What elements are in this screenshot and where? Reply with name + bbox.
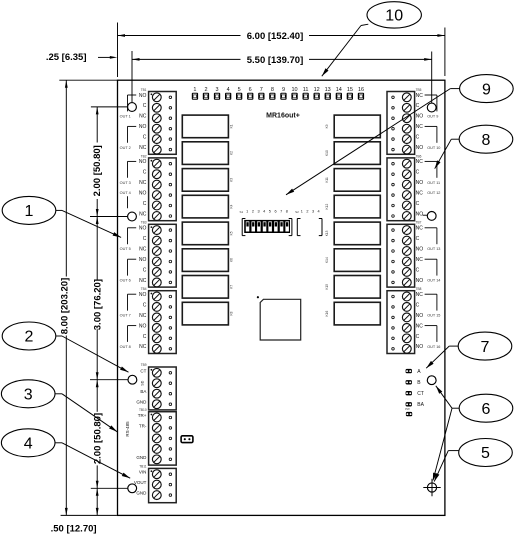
svg-text:SD: SD xyxy=(141,380,145,385)
mounting hole top-right xyxy=(427,103,436,112)
svg-text:3: 3 xyxy=(24,387,33,404)
output LED 12 xyxy=(314,87,320,100)
svg-text:NO: NO xyxy=(139,323,147,329)
leader line for balloon 7 xyxy=(426,346,458,368)
relay K9 xyxy=(325,115,380,138)
svg-text:K12: K12 xyxy=(325,204,329,210)
terminal block TB1 (left, OUT 1/OUT 2) xyxy=(141,88,176,154)
svg-text:2: 2 xyxy=(252,210,254,214)
svg-text:6: 6 xyxy=(482,401,491,418)
relay K7 xyxy=(182,276,233,299)
pin labels OUT 6 (NO/C/NC) xyxy=(120,257,147,284)
status LED A xyxy=(406,369,422,375)
svg-text:OUT 7: OUT 7 xyxy=(120,314,131,318)
svg-text:4: 4 xyxy=(24,436,33,453)
relay K16 xyxy=(325,302,380,325)
svg-text:OUT 3: OUT 3 xyxy=(120,181,131,185)
svg-text:S2: S2 xyxy=(295,210,299,214)
dimension 2.00 [50.80] vertical lower xyxy=(91,380,128,489)
svg-text:NO: NO xyxy=(139,124,147,130)
svg-text:4: 4 xyxy=(318,210,320,214)
svg-text:RS-485: RS-485 xyxy=(125,421,130,437)
pin labels OUT 11 (NC/C/NO) xyxy=(416,159,441,186)
svg-text:NC: NC xyxy=(139,145,147,151)
relay K13 xyxy=(325,222,380,245)
svg-text:GND: GND xyxy=(136,455,147,460)
pin labels OUT 8 (NO/C/NC) xyxy=(120,323,147,350)
svg-text:K8: K8 xyxy=(230,311,234,315)
terminal block TB2 (left, OUT 3/OUT 4) xyxy=(141,154,176,220)
leader line for balloon 9 xyxy=(286,89,460,195)
svg-text:OUT 14: OUT 14 xyxy=(427,279,440,283)
leader line for balloon 6 (to fiducial) xyxy=(433,408,452,481)
svg-text:C: C xyxy=(143,302,147,308)
svg-text:K1: K1 xyxy=(230,124,234,128)
callout balloon 4 xyxy=(1,429,55,457)
svg-text:VIN: VIN xyxy=(139,470,147,475)
dimension 6.00 [152.40] horizontal top xyxy=(118,23,445,78)
callout balloon 8 xyxy=(459,125,513,153)
output LED 11 xyxy=(303,87,309,100)
pin labels OUT 7 (NO/C/NC) xyxy=(120,292,147,319)
svg-text:8: 8 xyxy=(271,87,274,93)
svg-text:C: C xyxy=(143,201,147,207)
svg-text:NC: NC xyxy=(416,124,424,130)
svg-text:C: C xyxy=(143,236,147,242)
terminal block TB9 xyxy=(141,363,176,410)
callout balloon 7 xyxy=(458,332,512,360)
svg-text:C: C xyxy=(416,236,420,242)
svg-text:OUT 10: OUT 10 xyxy=(427,146,440,150)
svg-text:K15: K15 xyxy=(325,284,329,290)
svg-text:TB9: TB9 xyxy=(141,363,147,367)
pin labels OUT 4 (NO/C/NC) xyxy=(120,191,147,218)
svg-text:C: C xyxy=(416,170,420,176)
svg-text:2: 2 xyxy=(204,87,207,93)
terminal block TB3 (left, OUT 5/OUT 6) xyxy=(141,221,176,287)
svg-text:OUT 5: OUT 5 xyxy=(120,247,131,251)
tick from NO pin label to mid-right hole xyxy=(423,214,428,216)
svg-text:NC: NC xyxy=(416,226,424,232)
svg-text:6.00 [152.40]: 6.00 [152.40] xyxy=(247,31,304,42)
relay K5 xyxy=(182,222,233,245)
svg-text:K10: K10 xyxy=(325,150,329,156)
callout balloon 10 xyxy=(367,2,421,28)
svg-text:NO: NO xyxy=(139,93,147,99)
svg-text:OUT 6: OUT 6 xyxy=(120,279,131,283)
svg-text:4: 4 xyxy=(263,210,265,214)
svg-text:TB7: TB7 xyxy=(416,221,422,225)
leader line for balloon 3 xyxy=(55,394,117,432)
dimension 5.50 [139.70] horizontal xyxy=(132,51,432,103)
relay K8 xyxy=(182,302,233,325)
svg-text:OUT 15: OUT 15 xyxy=(427,314,440,318)
svg-text:C: C xyxy=(416,135,420,141)
dimension 2.00 [50.80] vertical upper xyxy=(90,107,127,217)
svg-text:MR16out+: MR16out+ xyxy=(266,113,300,120)
svg-text:BA: BA xyxy=(140,389,146,394)
board outline (PCB edge) xyxy=(118,80,445,515)
status LED B xyxy=(406,380,422,386)
svg-text:7: 7 xyxy=(481,339,490,356)
callout balloon 5 xyxy=(459,439,513,467)
svg-text:11: 11 xyxy=(303,87,309,93)
svg-text:2: 2 xyxy=(306,210,308,214)
svg-text:TB5: TB5 xyxy=(416,88,422,92)
output LED 6 xyxy=(247,87,253,100)
terminal block TB6 (right, OUT 11/OUT 12) xyxy=(387,154,422,220)
svg-text:TB10: TB10 xyxy=(139,408,147,412)
svg-text:NC: NC xyxy=(416,191,424,197)
svg-text:3.00 [76.20]: 3.00 [76.20] xyxy=(93,279,104,330)
svg-text:2.00 [50.80]: 2.00 [50.80] xyxy=(92,413,103,464)
output LED 8 xyxy=(269,87,275,100)
svg-text:C: C xyxy=(416,302,420,308)
svg-text:NC: NC xyxy=(416,292,424,298)
svg-text:C: C xyxy=(143,170,147,176)
status LED PW xyxy=(405,407,412,416)
svg-text:8: 8 xyxy=(482,132,491,149)
pin labels OUT 5 (NO/C/NC) xyxy=(120,226,147,253)
svg-text:CT: CT xyxy=(140,368,146,373)
relay K3 xyxy=(182,169,233,192)
svg-text:10: 10 xyxy=(291,87,297,93)
svg-text:C: C xyxy=(143,267,147,273)
svg-text:7: 7 xyxy=(280,210,282,214)
mounting hole bottom-left xyxy=(128,484,137,493)
svg-text:1: 1 xyxy=(246,210,248,214)
svg-text:NO: NO xyxy=(139,191,147,197)
svg-text:3: 3 xyxy=(257,210,259,214)
svg-text:K4: K4 xyxy=(230,204,234,208)
svg-text:NC: NC xyxy=(139,212,147,218)
terminal block TB4 (left, OUT 7/OUT 8) xyxy=(141,287,176,353)
svg-text:9: 9 xyxy=(482,81,491,98)
terminal block TB10 xyxy=(139,408,176,465)
output LED 5 xyxy=(236,87,242,100)
callout balloon 6 xyxy=(459,394,513,422)
pin labels OUT 15 (NC/C/NO) xyxy=(416,292,441,319)
pin labels OUT 13 (NC/C/NO) xyxy=(416,226,441,253)
pin labels OUT 16 (NC/C/NO) xyxy=(416,323,441,350)
svg-text:NO: NO xyxy=(416,180,424,186)
mounting hole top-left xyxy=(128,103,137,112)
svg-text:S1: S1 xyxy=(240,210,244,214)
pin labels OUT 1 (NO/C/NC) xyxy=(120,93,147,120)
leader line for balloon 2 xyxy=(56,336,129,372)
relay K6 xyxy=(182,249,233,272)
jumper J2 (2-pin header by TB10) xyxy=(181,436,193,443)
svg-text:NC: NC xyxy=(139,180,147,186)
svg-text:K2: K2 xyxy=(230,151,234,155)
svg-text:1: 1 xyxy=(301,210,303,214)
mounting hole lower-left xyxy=(128,375,137,384)
svg-text:NC: NC xyxy=(416,323,424,329)
silkscreen S2 (4-position footprint, unpopulated) xyxy=(295,210,322,236)
svg-text:NO: NO xyxy=(139,159,147,165)
terminal block TB11 xyxy=(139,465,176,503)
svg-text:NC: NC xyxy=(139,313,147,319)
output LED 9 xyxy=(280,87,286,100)
svg-text:10: 10 xyxy=(385,8,403,25)
pin labels TB9 xyxy=(136,368,147,404)
callout balloon 9 xyxy=(460,75,514,103)
pin labels TB11 xyxy=(134,470,147,496)
svg-text:OUT 13: OUT 13 xyxy=(427,247,440,251)
pin labels OUT 3 (NO/C/NC) xyxy=(120,159,147,186)
output LED 4 xyxy=(225,87,231,100)
svg-text:C: C xyxy=(416,267,420,273)
svg-text:5: 5 xyxy=(269,210,271,214)
svg-text:5.50 [139.70]: 5.50 [139.70] xyxy=(247,55,304,66)
svg-text:NO: NO xyxy=(139,292,147,298)
output LED 7 xyxy=(258,87,264,100)
svg-text:OUT 12: OUT 12 xyxy=(427,191,440,195)
leader line for balloon 10 xyxy=(322,24,369,76)
svg-text:GND: GND xyxy=(136,491,147,496)
svg-text:PW: PW xyxy=(405,407,410,411)
svg-text:5: 5 xyxy=(481,445,490,462)
svg-text:TB2: TB2 xyxy=(141,154,147,158)
svg-text:NC: NC xyxy=(416,257,424,263)
leader line for balloon 5 xyxy=(434,451,459,482)
output LED 14 xyxy=(336,87,342,100)
status LED BA xyxy=(406,402,425,408)
terminal block TB5 (right, OUT 9/OUT 10) xyxy=(387,88,422,154)
svg-text:K5: K5 xyxy=(230,231,234,235)
mounting hole mid-left xyxy=(128,212,137,221)
leader line for balloon 6 xyxy=(436,386,459,408)
output LED 1 xyxy=(192,87,198,100)
svg-text:C: C xyxy=(143,334,147,340)
leader line for balloon 4 xyxy=(55,443,130,478)
fiducial / reference target bottom-right xyxy=(423,479,440,496)
mounting hole mid-right xyxy=(427,212,436,221)
svg-text:NO: NO xyxy=(416,145,424,151)
svg-text:6: 6 xyxy=(274,210,276,214)
output LED 10 xyxy=(291,87,297,100)
svg-text:NO: NO xyxy=(139,257,147,263)
svg-text:K14: K14 xyxy=(325,257,329,263)
svg-text:13: 13 xyxy=(325,87,331,93)
svg-text:8: 8 xyxy=(286,210,288,214)
svg-text:VOUT: VOUT xyxy=(134,480,147,485)
leader line for balloon 8 xyxy=(435,139,460,169)
status LED CT xyxy=(406,391,424,397)
pin labels TB10 xyxy=(136,413,147,460)
svg-text:OUT 1: OUT 1 xyxy=(120,114,131,118)
svg-text:TR-: TR- xyxy=(139,423,147,428)
terminal block TB7 (right, OUT 13/OUT 14) xyxy=(387,221,422,287)
svg-text:.50 [12.70]: .50 [12.70] xyxy=(51,523,97,534)
relay K14 xyxy=(325,249,380,272)
relay K1 xyxy=(182,115,233,138)
svg-text:2: 2 xyxy=(25,329,34,346)
relay K10 xyxy=(325,142,380,165)
svg-text:TB11: TB11 xyxy=(139,465,147,469)
svg-text:NO: NO xyxy=(139,226,147,232)
svg-text:C: C xyxy=(416,201,420,207)
svg-text:8.00 [203.20]: 8.00 [203.20] xyxy=(60,278,71,335)
svg-text:NC: NC xyxy=(416,93,424,99)
svg-text:K13: K13 xyxy=(325,230,329,236)
DIP switch S1 (8-position) xyxy=(240,210,292,236)
svg-text:16: 16 xyxy=(358,87,364,93)
svg-text:TB8: TB8 xyxy=(416,287,422,291)
svg-text:K11: K11 xyxy=(325,177,329,183)
dimension .50 [12.70] vertical bottom xyxy=(51,488,99,534)
svg-text:C: C xyxy=(416,334,420,340)
svg-text:NO: NO xyxy=(416,344,424,350)
svg-text:NC: NC xyxy=(139,344,147,350)
svg-text:6: 6 xyxy=(249,87,252,93)
pin labels OUT 2 (NO/C/NC) xyxy=(120,124,147,151)
relay K4 xyxy=(182,195,233,218)
svg-text:TR+: TR+ xyxy=(138,413,147,418)
relay K12 xyxy=(325,195,380,218)
svg-text:NC: NC xyxy=(139,247,147,253)
svg-text:OUT 16: OUT 16 xyxy=(427,345,440,349)
svg-text:7: 7 xyxy=(260,87,263,93)
output LED 2 xyxy=(203,87,209,100)
callout balloon 3 xyxy=(1,380,55,408)
output LED 15 xyxy=(347,87,353,100)
svg-text:TB1: TB1 xyxy=(141,88,147,92)
svg-text:K16: K16 xyxy=(325,311,329,317)
svg-text:K3: K3 xyxy=(230,178,234,182)
svg-text:K7: K7 xyxy=(230,285,234,289)
svg-text:9: 9 xyxy=(282,87,285,93)
svg-text:C: C xyxy=(143,135,147,141)
svg-text:GND: GND xyxy=(136,400,147,405)
svg-text:NO: NO xyxy=(416,278,424,284)
pin labels OUT 12 (NC/C/NO) xyxy=(416,191,441,218)
svg-text:NO: NO xyxy=(416,114,424,120)
svg-text:TB4: TB4 xyxy=(141,287,147,291)
svg-text:12: 12 xyxy=(314,87,320,93)
svg-text:C: C xyxy=(143,103,147,109)
relay K15 xyxy=(325,276,380,299)
svg-text:NO: NO xyxy=(416,247,424,253)
svg-text:OUT 9: OUT 9 xyxy=(427,114,438,118)
pin labels OUT 14 (NC/C/NO) xyxy=(416,257,441,284)
mounting hole lower-right xyxy=(427,376,436,385)
svg-text:1: 1 xyxy=(193,87,196,93)
callout balloon 1 xyxy=(2,196,56,224)
output LED 16 xyxy=(358,87,364,100)
svg-text:K9: K9 xyxy=(325,124,329,128)
svg-text:1: 1 xyxy=(25,203,34,220)
svg-text:NO: NO xyxy=(416,313,424,319)
terminal block TB8 (right, OUT 15/OUT 16) xyxy=(387,287,422,353)
svg-text:OUT 8: OUT 8 xyxy=(120,345,131,349)
callout balloon 2 xyxy=(2,322,56,350)
svg-text:3: 3 xyxy=(312,210,314,214)
svg-text:NC: NC xyxy=(139,278,147,284)
svg-text:TB6: TB6 xyxy=(416,154,422,158)
svg-text:OUT 11: OUT 11 xyxy=(427,181,440,185)
leader line for balloon 1 xyxy=(56,210,121,237)
svg-text:.25 [6.35]: .25 [6.35] xyxy=(46,52,87,63)
svg-text:OUT 2: OUT 2 xyxy=(120,146,131,150)
svg-text:2.00 [50.80]: 2.00 [50.80] xyxy=(92,145,103,196)
svg-text:NC: NC xyxy=(416,159,424,165)
svg-text:TB3: TB3 xyxy=(141,221,147,225)
dimension 8.00 [203.20] vertical left xyxy=(59,80,117,515)
svg-text:CT: CT xyxy=(417,391,424,397)
svg-text:3: 3 xyxy=(215,87,218,93)
svg-text:NC: NC xyxy=(139,114,147,120)
dimension .25 [6.35] horizontal xyxy=(46,52,117,63)
pin labels OUT 9 (NC/C/NO) xyxy=(416,93,439,120)
relay K11 xyxy=(325,169,380,192)
svg-text:OUT 4: OUT 4 xyxy=(120,191,131,195)
pin labels OUT 10 (NC/C/NO) xyxy=(416,124,441,151)
svg-text:14: 14 xyxy=(336,87,342,93)
svg-text:NO: NO xyxy=(416,212,424,218)
svg-text:K6: K6 xyxy=(230,258,234,262)
IC U1 (square package) xyxy=(257,296,301,340)
dimension 3.00 [76.20] vertical xyxy=(90,217,128,380)
output LED 3 xyxy=(214,87,220,100)
relay K2 xyxy=(182,142,233,165)
svg-text:5: 5 xyxy=(238,87,241,93)
svg-text:15: 15 xyxy=(347,87,353,93)
svg-text:BA: BA xyxy=(417,402,424,408)
output LED 13 xyxy=(325,87,331,100)
svg-text:4: 4 xyxy=(227,87,230,93)
